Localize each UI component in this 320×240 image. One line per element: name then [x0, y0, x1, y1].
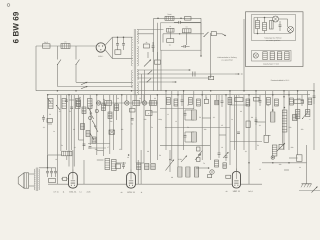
wire vertical x244: [243, 19, 245, 91]
capacitor tone a: [46, 168, 49, 177]
bus row resistor r12: [290, 98, 294, 105]
mains plug P1: [96, 43, 105, 58]
wire link b: [202, 117, 211, 119]
dial lamp La3: [142, 101, 146, 105]
resistor row 4: [88, 99, 93, 109]
pot arrow mid a: [181, 156, 187, 163]
capacitor IF a: [184, 110, 187, 120]
resistor mid b: [82, 107, 86, 114]
bus line main: [36, 90, 314, 92]
bus row resistor r7: [228, 98, 232, 105]
resistor labeled b: [254, 97, 260, 101]
block box outline: [161, 23, 202, 50]
resistor right d: [297, 155, 303, 162]
wire switch b to trafo: [76, 81, 132, 83]
inset coil a: [263, 52, 267, 60]
wire cathode bus c: [136, 183, 233, 185]
bus row resistor r14: [308, 98, 312, 105]
voltage selector arrow a: [81, 86, 88, 89]
transformer T1 heater winding 1: [137, 70, 138, 81]
wire switch a to trafo: [58, 86, 132, 88]
node dots bottom: [47, 159, 290, 169]
wire mains left vertical: [35, 46, 37, 91]
coil top line: [165, 13, 174, 20]
capacitor tone b: [50, 168, 53, 177]
wire left mid h2: [88, 147, 106, 149]
output transformer primary: [34, 169, 35, 190]
band switch cluster box b: [86, 131, 90, 137]
heater resistor b: [133, 101, 140, 106]
capacitor right edge: [313, 91, 316, 104]
capacitor IF b: [184, 132, 187, 142]
node osc top: [272, 107, 285, 111]
wire above tube2 h163: [116, 162, 127, 164]
svg-text:6 BW 69: 6 BW 69: [11, 11, 20, 43]
tube V2 UCH11: [127, 170, 136, 189]
node top line b: [180, 18, 182, 20]
node main bus junction: [283, 96, 285, 98]
capacitor mid a: [131, 119, 134, 126]
wire switch drop b: [75, 46, 77, 60]
wire vertical drops: [48, 23, 314, 184]
switch S1b: [75, 60, 79, 66]
node dots lower bus: [47, 94, 290, 96]
wire tube1 left link: [61, 178, 69, 180]
coil bottom left: [62, 151, 72, 156]
resistor left of tube1: [63, 177, 67, 180]
label left of tube1: [53, 191, 58, 194]
value labels scatter: [43, 96, 311, 179]
wire IF mid horizontal: [165, 127, 230, 129]
resistor above tube2 b: [137, 163, 141, 170]
wire trafo top to caps: [39, 167, 56, 169]
wire link d: [256, 121, 266, 123]
arrow tap right: [222, 34, 226, 36]
wire switch drop: [210, 33, 212, 78]
resistor after switch: [211, 32, 222, 36]
wire above tube2 h160: [97, 159, 104, 161]
output transformer core: [36, 168, 37, 192]
transformer T1 HT secondary: [137, 30, 163, 45]
wire ladder top to trafo: [112, 36, 131, 38]
wire link g: [266, 134, 271, 136]
capacitor mains C2: [122, 36, 125, 50]
wire link c: [219, 134, 226, 136]
text wellenschalter note: [217, 56, 236, 62]
pot arrow mid c: [223, 152, 229, 158]
band switch cluster box a: [81, 124, 85, 130]
wire h141 right: [230, 141, 262, 143]
wire switch drop a: [57, 46, 59, 60]
wire top line y18: [154, 17, 201, 19]
svg-text:«L» gezeichnet: «L» gezeichnet: [221, 59, 233, 62]
resistor top left tube3: [223, 163, 227, 169]
wire top drop left: [153, 18, 155, 34]
wire IF links: [185, 110, 194, 142]
inset lamp circle top: [273, 16, 279, 22]
inset outer box: [246, 12, 304, 67]
svg-text:Ersatzschaltbild s. Bl. 2: Ersatzschaltbild s. Bl. 2: [271, 79, 290, 82]
resistor in block: [167, 39, 174, 47]
resistor above tube3 c: [195, 167, 199, 177]
switch left col: [198, 151, 203, 156]
svg-text:Wellenschalter in Stellung: Wellenschalter in Stellung: [217, 56, 236, 59]
resistor right col b: [306, 110, 310, 117]
capacitor tone c: [54, 168, 57, 177]
svg-text:11: 11: [63, 191, 65, 194]
node circle a: [89, 116, 92, 119]
band switch arrow b: [92, 120, 96, 127]
inset wire top: [254, 18, 288, 28]
wire pot link: [281, 132, 283, 144]
bus line lower: [48, 94, 310, 96]
transformer T1 primary winding: [131, 37, 132, 88]
switch band right a: [88, 107, 92, 114]
inset capacitor: [279, 21, 282, 31]
wire link j: [97, 150, 104, 152]
cluster cap mid b: [225, 152, 228, 161]
svg-text:220V~: 220V~: [98, 55, 103, 58]
switch under bus a: [47, 98, 51, 103]
wire tap y78: [137, 77, 210, 79]
svg-text:e: e: [310, 119, 311, 121]
inset coil c: [277, 52, 281, 60]
resistor above tube2 c: [145, 164, 149, 170]
wire h168: [196, 167, 209, 169]
title 6 BW 69 (rotated): [11, 11, 20, 43]
node circle b: [95, 109, 98, 112]
capacitor top right of block: [174, 21, 201, 24]
switch band right c: [90, 133, 94, 140]
wire cathode bus a: [48, 183, 68, 185]
wire link l: [48, 123, 52, 125]
tube V3 UBF11: [232, 169, 240, 189]
resistor at y78 end: [209, 73, 214, 79]
resistor right col a: [296, 110, 300, 119]
registration mark top-left: [7, 4, 10, 7]
switch S1a: [57, 60, 61, 66]
dial lamp La1: [96, 101, 100, 105]
wire h155: [48, 154, 62, 156]
resistor right of trafo b: [155, 60, 161, 64]
resistor mid g: [146, 111, 153, 116]
wire link f: [79, 139, 84, 141]
resistor mid d: [108, 112, 112, 119]
wire cathode bus d: [241, 183, 263, 185]
svg-text:2x0,1: 2x0,1: [248, 190, 252, 193]
svg-text:2x35: 2x35: [87, 191, 91, 194]
wire IF lower horizontal: [160, 145, 210, 147]
bus row resistor r10: [267, 98, 271, 105]
svg-text:UCH 11: UCH 11: [127, 191, 135, 194]
svg-text:Si0,2: Si0,2: [44, 41, 48, 44]
bus row resistor r4: [189, 98, 193, 105]
band switch cluster cap b: [89, 147, 92, 149]
inset text lower: [263, 63, 280, 66]
arrow bottom right: [312, 187, 318, 193]
pot arrow right of trafo: [144, 60, 151, 67]
wire trafo bottom drop: [134, 96, 136, 101]
wire switch b down: [75, 65, 77, 83]
wire link h: [289, 157, 298, 159]
coil above tube2 a: [105, 159, 110, 170]
coil above tube2 b: [112, 154, 130, 170]
wire x47 down: [47, 155, 49, 168]
label right of tube1: [79, 191, 90, 194]
wire link k: [136, 162, 144, 164]
resistor right c: [264, 135, 269, 142]
svg-text:UY 11: UY 11: [53, 191, 58, 194]
node right top: [248, 162, 250, 164]
wire bottom right bus: [262, 162, 307, 164]
inset coil d: [285, 52, 289, 60]
wire mid h 108: [160, 108, 194, 110]
resistor left of tube3: [226, 175, 231, 178]
wire plug ladder: [111, 37, 113, 58]
bus row capacitor r3: [181, 95, 184, 106]
jack socket: [210, 170, 214, 174]
wire ladder bottom to trafo: [112, 58, 131, 60]
capacitor mains C1: [116, 36, 119, 50]
inset lower sub-box: [252, 51, 292, 62]
resistor mid c: [102, 104, 106, 111]
svg-text:11: 11: [141, 191, 143, 194]
tube V3 label: [226, 190, 253, 193]
capacitor under bus b: [70, 107, 73, 109]
capacitor right of trafo: [152, 42, 155, 52]
tube V2 label: [121, 191, 143, 194]
resistor top right row a: [204, 96, 208, 103]
oscillator coil: [282, 110, 287, 132]
band switch arrow a: [90, 112, 94, 119]
wire tap y82: [137, 79, 176, 83]
svg-text:40: 40: [121, 191, 123, 194]
tube V1 UCL11: [69, 170, 78, 189]
switch under bus b: [56, 105, 60, 110]
heater resistor c: [150, 101, 157, 106]
coil L4 in block: [167, 25, 174, 32]
wire bottom right line: [299, 190, 320, 192]
resistor mid e: [115, 104, 119, 111]
wire heater tap a: [141, 74, 143, 103]
inset upper sub-box: [252, 15, 296, 41]
resistor right of trafo: [144, 41, 150, 48]
bus row resistor r1: [167, 98, 171, 105]
wire block vert right: [200, 18, 202, 50]
resistor left col b: [197, 158, 201, 162]
fuse Si 0.2A: [43, 41, 51, 48]
resistor row 2: [62, 99, 67, 109]
bus row capacitor r6: [221, 95, 224, 107]
tube V1 label: [63, 191, 78, 194]
resistor above tube3 a: [178, 167, 182, 177]
svg-text:UBF 11: UBF 11: [233, 190, 241, 193]
voltage selector arrow b: [81, 82, 88, 85]
ground symbol right: [301, 184, 312, 188]
capacitor right mid c: [237, 132, 240, 134]
transformer T1 core: [134, 29, 135, 96]
capacitor above tube2: [122, 162, 125, 169]
bus row resistor r2: [174, 99, 178, 106]
resistor right a: [293, 115, 297, 121]
bus row capacitor r9: [259, 95, 262, 106]
bus row capacitor r13: [301, 95, 304, 106]
switch wave selector: [203, 32, 208, 37]
speaker wires: [29, 174, 34, 186]
resistor mid left b: [47, 119, 53, 123]
node dots bus: [57, 90, 315, 92]
wire block internals: [163, 32, 201, 45]
resistor row 3: [76, 99, 81, 109]
inset coil b: [270, 52, 274, 60]
wire link i: [284, 169, 289, 171]
svg-text:µ: µ: [148, 113, 149, 115]
wire tap y70: [137, 69, 190, 71]
wire switch a down: [57, 65, 59, 87]
band switch cluster cap a: [83, 144, 86, 146]
dial lamp La2: [125, 101, 129, 105]
band switch cluster box c: [92, 137, 96, 143]
wire coil to tube1 drop: [66, 156, 68, 160]
heater resistor a: [105, 101, 112, 106]
svg-text:40: 40: [226, 190, 228, 193]
choke Dr: [61, 41, 70, 49]
arrow under block: [200, 50, 202, 57]
pot arrow mid b: [195, 154, 201, 161]
speaker LS: [18, 173, 28, 188]
inset zigzag resistor: [270, 21, 274, 30]
inset text upper: [264, 37, 281, 43]
cluster cap mid a: [218, 150, 221, 158]
wire plug fan top: [105, 37, 112, 45]
resistor mid f: [130, 106, 136, 112]
resistor labeled a: [235, 95, 243, 102]
resistor near jack: [208, 175, 212, 178]
inset resistor a: [256, 21, 260, 29]
resistor above tube3 b: [186, 167, 190, 177]
wire plug fan bottom: [105, 50, 112, 59]
capacitor under bus a: [65, 100, 68, 102]
inset resistor b: [263, 23, 267, 31]
IF transformer 1 coil upper: [192, 110, 197, 120]
resistor above tube2 d: [151, 164, 155, 170]
transformer T1 mid secondary: [137, 46, 138, 66]
bus row resistor r11: [275, 99, 279, 106]
coil right lower: [272, 145, 277, 156]
inset lamp circle right: [288, 27, 294, 33]
capacitor right mid a: [255, 117, 258, 125]
heater row wire: [96, 102, 158, 104]
resistor tone: [49, 179, 56, 183]
resistor top line: [185, 17, 192, 21]
pot with arrow right: [277, 143, 285, 151]
node right: [272, 157, 274, 159]
bus row resistor r8: [246, 99, 250, 106]
box mid x110: [109, 130, 115, 134]
coil right b: [271, 112, 275, 122]
svg-text:UCL 11: UCL 11: [69, 191, 77, 194]
wire heater tap b: [144, 70, 146, 101]
wire cathode bus b: [77, 183, 126, 185]
capacitor mid left a: [42, 115, 45, 122]
wire mains top: [36, 45, 96, 47]
volume potentiometer: [166, 150, 175, 172]
resistor cluster: [215, 160, 219, 167]
switch right: [302, 114, 307, 120]
resistor left col a: [197, 147, 201, 151]
switch band right b: [94, 125, 98, 132]
inset lamp 1: [253, 53, 258, 58]
output transformer secondary: [39, 169, 40, 190]
coil L5 in block: [182, 26, 191, 33]
resistor top right row b: [215, 100, 219, 105]
resistor row 1: [49, 99, 54, 109]
wire left mid h1: [88, 143, 110, 145]
wire h105 right: [230, 104, 248, 106]
wire block out: [201, 33, 205, 35]
IF transformer 1 coil lower: [192, 132, 197, 142]
wire tap y74: [137, 71, 242, 77]
resistor mid a: [77, 100, 81, 107]
fuse box mains: [115, 50, 121, 55]
wire right of trafo v: [148, 52, 158, 60]
circle node bottom mid: [271, 156, 274, 159]
capacitor in block: [181, 45, 190, 48]
node block junction: [179, 33, 181, 35]
resistor right mid b: [246, 121, 250, 128]
wire link e: [69, 99, 74, 101]
resistor right top: [294, 97, 304, 104]
svg-text:von unten gesehen: von unten gesehen: [266, 39, 280, 42]
resistor above tube2 a: [116, 164, 121, 169]
node top line: [157, 18, 159, 20]
text below inset: [271, 79, 290, 82]
inset wires: [254, 17, 291, 35]
transformer T1 heater winding 2: [137, 83, 138, 95]
wire link a: [151, 111, 158, 113]
bus row resistor r5: [197, 99, 201, 106]
